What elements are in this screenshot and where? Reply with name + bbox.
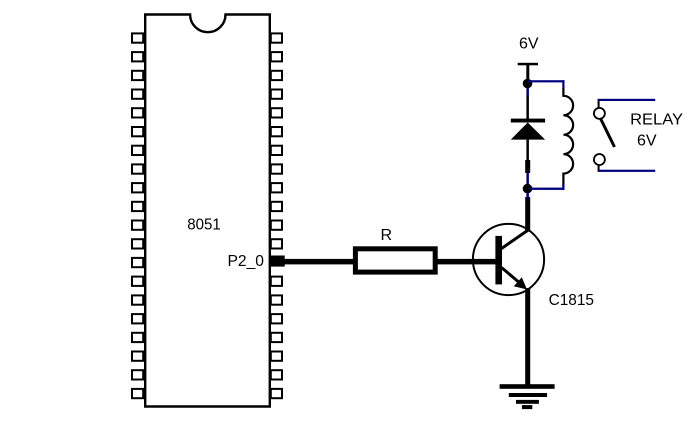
wire relay contact bottom <box>598 170 656 172</box>
pin P2_0 filled pad <box>271 256 285 267</box>
transistor Q1 (NPN) <box>473 224 544 295</box>
wire junction1 to diode cathode <box>526 88 529 120</box>
wire resistor to transistor base <box>434 259 496 265</box>
svg-text:C1815: C1815 <box>549 292 594 309</box>
wire emitter vertical <box>525 288 530 385</box>
junction node J1 <box>523 79 533 89</box>
wire diode anode to junction2 <box>525 140 530 185</box>
wire P2_0 pin to resistor <box>283 259 356 265</box>
wire collector vertical <box>525 197 530 232</box>
wire junction2 to collector <box>526 193 529 199</box>
wire coil bottom to junction2 <box>529 185 565 190</box>
svg-text:8051: 8051 <box>187 216 221 233</box>
junction node J2 <box>523 184 533 194</box>
svg-text:RELAY: RELAY <box>630 112 683 129</box>
svg-text:6V: 6V <box>519 36 539 53</box>
relay coil L1 <box>563 88 573 187</box>
relay switch SW1 <box>594 99 615 171</box>
svg-text:R: R <box>381 227 393 244</box>
svg-text:6V: 6V <box>637 133 657 150</box>
resistor R <box>355 249 435 272</box>
IC U1 8051 body <box>145 15 270 407</box>
svg-text:P2_0: P2_0 <box>228 253 265 270</box>
wire junction1 to relay coil top <box>528 80 565 88</box>
IC U1 left pins (pins 1-20) <box>132 33 143 398</box>
ground symbol <box>500 384 555 409</box>
IC U1 right pins (pins 21-40) <box>271 33 282 398</box>
diode D1 flyback <box>511 119 545 140</box>
power terminal 6V <box>518 63 538 79</box>
wire relay contact top <box>598 99 656 101</box>
